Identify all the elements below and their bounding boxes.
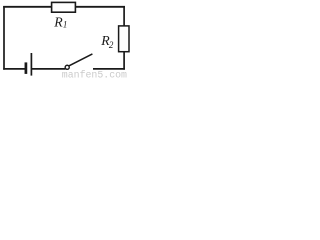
resistor R1 <box>52 2 76 12</box>
svg-text:manfen5.com: manfen5.com <box>62 70 127 81</box>
battery positive plate (long) <box>30 53 32 76</box>
wire bottom-left (left corner to battery) <box>3 68 25 70</box>
svg-text:1: 1 <box>63 20 68 30</box>
wire top-left (from left corner to R1) <box>3 6 52 8</box>
switch S (pivot circle) <box>65 65 69 69</box>
wire battery-to-switch <box>32 68 66 70</box>
switch S (lever) <box>69 54 93 66</box>
label R1 <box>53 14 67 29</box>
battery negative plate (short thick) <box>25 62 28 74</box>
wire right upper (corner down to R2) <box>123 6 125 26</box>
wire left (left side vertical) <box>3 6 5 70</box>
wire top-right (from R1 to right corner) <box>75 6 125 8</box>
svg-text:R: R <box>53 14 63 29</box>
resistor R2 <box>119 26 129 52</box>
wire right lower (R2 down to bottom corner) <box>123 52 125 70</box>
svg-text:2: 2 <box>109 40 114 50</box>
wire bottom-right (right corner to switch) <box>93 68 125 70</box>
label R2 <box>100 33 114 50</box>
